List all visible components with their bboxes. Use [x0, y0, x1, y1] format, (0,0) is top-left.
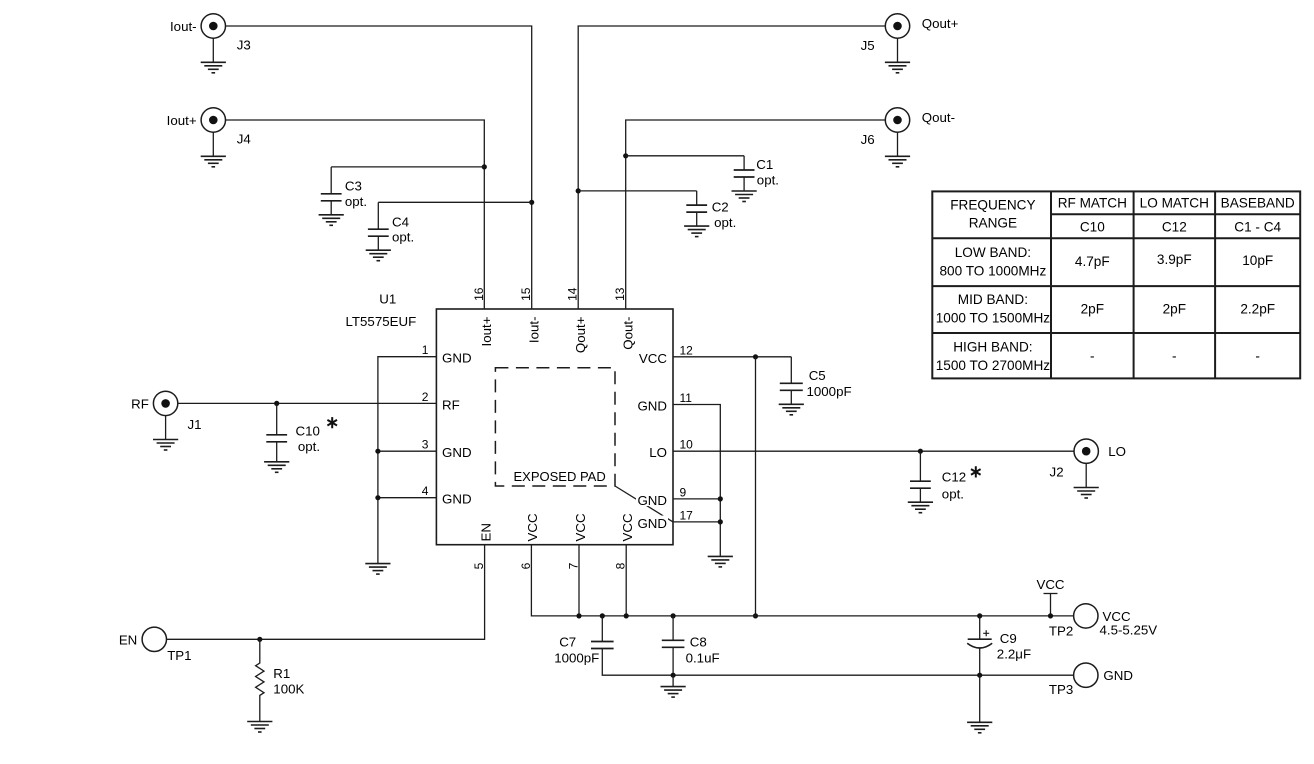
- svg-text:Qout+: Qout+: [922, 16, 959, 31]
- ground under R1: [247, 722, 272, 733]
- wire J1 to ground: [165, 416, 167, 440]
- svg-text:C3: C3: [345, 178, 362, 193]
- connector J1 (RF): [153, 391, 177, 415]
- wire pin 8 stub: [625, 545, 627, 616]
- capacitor C3: [321, 167, 342, 215]
- wire pin 17: [673, 521, 720, 523]
- frequency range table: [932, 191, 1300, 378]
- svg-text:11: 11: [680, 391, 693, 405]
- svg-text:LO MATCH: LO MATCH: [1140, 195, 1209, 210]
- ground under J4: [201, 156, 226, 167]
- svg-text:LO: LO: [649, 445, 667, 460]
- svg-text:0.1uF: 0.1uF: [686, 650, 720, 665]
- svg-text:10: 10: [680, 438, 694, 452]
- ground under C10: [264, 462, 289, 473]
- capacitor C1: [734, 156, 755, 191]
- wire pin 11 GND trunk: [673, 405, 720, 557]
- svg-text:C2: C2: [712, 200, 729, 215]
- connector J5 (Qout+): [885, 14, 909, 38]
- wire J3 to ground: [212, 38, 214, 62]
- junction node pin 8 / rail: [624, 613, 629, 618]
- svg-text:-: -: [1172, 349, 1177, 364]
- test point TP1 (EN): [142, 627, 166, 651]
- svg-text:Iout+: Iout+: [167, 113, 197, 128]
- svg-text:J3: J3: [237, 37, 251, 52]
- label C12 asterisk: [971, 466, 981, 477]
- svg-text:EN: EN: [119, 632, 137, 647]
- svg-text:VCC: VCC: [620, 513, 635, 541]
- wire to C3: [331, 166, 484, 168]
- ground under pin 11 trunk: [708, 556, 733, 567]
- svg-text:15: 15: [519, 287, 533, 301]
- svg-text:J1: J1: [188, 417, 202, 432]
- wire pin 7 stub: [578, 545, 580, 616]
- wire pin 1 GND trunk: [378, 357, 437, 564]
- wire TP1 to pin 5 (EN): [167, 545, 485, 640]
- junction node C8 / rail: [671, 613, 676, 618]
- ground under J2: [1074, 488, 1099, 499]
- svg-text:TP3: TP3: [1049, 682, 1073, 697]
- svg-text:RF MATCH: RF MATCH: [1058, 195, 1127, 210]
- svg-text:Iout-: Iout-: [526, 317, 541, 344]
- svg-text:4.5-5.25V: 4.5-5.25V: [1100, 623, 1158, 638]
- ground under J1: [153, 440, 178, 451]
- svg-text:10pF: 10pF: [1242, 253, 1273, 268]
- ground under C9: [967, 722, 992, 733]
- wire J6 to pin 13 (Qout-): [626, 120, 886, 309]
- svg-text:2: 2: [422, 390, 429, 404]
- wire pin 6 to VCC rail: [531, 545, 1073, 616]
- svg-text:VCC: VCC: [525, 513, 540, 541]
- svg-text:1000 TO 1500MHz: 1000 TO 1500MHz: [936, 311, 1051, 326]
- test point TP2 (VCC): [1074, 604, 1098, 628]
- junction node pin 9: [718, 496, 723, 501]
- svg-text:9: 9: [680, 485, 687, 499]
- ground under C4: [366, 250, 391, 261]
- wire J3 to pin 15 (Iout-): [226, 26, 532, 309]
- wire J1 to pin 2 (RF): [178, 402, 437, 404]
- svg-text:GND: GND: [442, 492, 472, 507]
- wire VCC junction down to rail: [755, 357, 757, 616]
- svg-text:VCC: VCC: [573, 513, 588, 541]
- capacitor C9 (polarized): [967, 616, 992, 675]
- ground under C8: [661, 687, 686, 698]
- svg-text:J2: J2: [1050, 465, 1064, 480]
- junction node RF / C10: [274, 401, 279, 406]
- junction node C7 / rail: [600, 613, 605, 618]
- capacitor C10: [266, 403, 287, 461]
- svg-text:-: -: [1090, 349, 1095, 364]
- ground under C1: [732, 191, 757, 202]
- wire pin 12 to C5: [673, 356, 791, 358]
- svg-text:RANGE: RANGE: [969, 216, 1017, 231]
- svg-text:R1: R1: [273, 666, 290, 681]
- capacitor C12: [910, 451, 931, 502]
- svg-text:opt.: opt.: [345, 194, 367, 209]
- junction node C9 / GND rail: [977, 673, 982, 678]
- wire to C4: [378, 201, 531, 203]
- capacitor C5: [780, 357, 803, 405]
- wire pin 9: [673, 498, 720, 500]
- svg-text:1: 1: [422, 343, 429, 357]
- power symbol VCC: [1044, 594, 1058, 616]
- svg-text:C12: C12: [942, 469, 966, 484]
- ground under C5: [779, 404, 804, 415]
- svg-text:GND: GND: [637, 493, 667, 508]
- svg-text:opt.: opt.: [392, 230, 414, 245]
- connector J3 (Iout-): [201, 14, 225, 38]
- ground under J6: [885, 156, 910, 167]
- capacitor C4: [368, 202, 389, 250]
- junction node pin 3: [375, 449, 380, 454]
- junction node pin 4: [375, 495, 380, 500]
- ground under C3: [319, 215, 344, 226]
- junction node LO / C12: [918, 449, 923, 454]
- svg-text:2.2μF: 2.2μF: [997, 646, 1031, 661]
- svg-text:VCC: VCC: [639, 351, 667, 366]
- svg-text:EN: EN: [478, 523, 493, 541]
- svg-text:opt.: opt.: [714, 215, 736, 230]
- svg-text:C1 - C4: C1 - C4: [1234, 219, 1281, 234]
- svg-text:RF: RF: [131, 396, 149, 411]
- svg-text:EXPOSED PAD: EXPOSED PAD: [514, 469, 606, 484]
- svg-text:13: 13: [613, 287, 627, 301]
- wire pin 10 LO to J2: [673, 450, 1074, 452]
- capacitor C8: [662, 616, 685, 675]
- svg-text:LT5575EUF: LT5575EUF: [346, 314, 417, 329]
- wire C7 to GND rail: [602, 663, 1073, 676]
- junction node VCC vertical / rail: [753, 613, 758, 618]
- svg-text:opt.: opt.: [942, 487, 964, 502]
- svg-text:3.9pF: 3.9pF: [1157, 252, 1192, 267]
- wire J6 to ground: [897, 132, 899, 156]
- svg-text:opt.: opt.: [757, 172, 779, 187]
- svg-text:GND: GND: [442, 445, 472, 460]
- svg-text:C9: C9: [1000, 631, 1017, 646]
- wire J4 to ground: [212, 132, 214, 156]
- svg-text:4.7pF: 4.7pF: [1075, 254, 1110, 269]
- junction node Iout+ / C3: [482, 164, 487, 169]
- ground under GND trunk: [365, 564, 390, 575]
- junction node Qout- / C1: [623, 153, 628, 158]
- svg-text:2pF: 2pF: [1081, 302, 1104, 317]
- svg-text:2pF: 2pF: [1163, 302, 1186, 317]
- svg-text:C5: C5: [809, 368, 826, 383]
- svg-text:TP1: TP1: [167, 648, 191, 663]
- svg-text:C7: C7: [559, 635, 576, 650]
- svg-text:MID BAND:: MID BAND:: [958, 292, 1028, 307]
- svg-text:FREQUENCY: FREQUENCY: [950, 197, 1035, 212]
- svg-text:BASEBAND: BASEBAND: [1221, 195, 1295, 210]
- svg-text:opt.: opt.: [298, 439, 320, 454]
- svg-text:800 TO 1000MHz: 800 TO 1000MHz: [939, 263, 1046, 278]
- wire J2 to ground: [1085, 463, 1087, 487]
- junction node VCC symbol / rail: [1048, 613, 1053, 618]
- exposed pad dashed outline: [495, 368, 615, 486]
- svg-text:-: -: [1255, 349, 1260, 364]
- svg-text:J4: J4: [237, 131, 251, 146]
- junction node pin 7 / rail: [576, 613, 581, 618]
- svg-text:U1: U1: [379, 292, 396, 307]
- junction node VCC / C5 branch: [753, 354, 758, 359]
- svg-text:14: 14: [566, 287, 580, 301]
- svg-text:2.2pF: 2.2pF: [1240, 302, 1275, 317]
- svg-text:1500 TO 2700MHz: 1500 TO 2700MHz: [936, 358, 1051, 373]
- junction node Iout- / C4: [529, 200, 534, 205]
- svg-text:GND: GND: [1103, 668, 1133, 683]
- connector J6 (Qout-): [885, 108, 909, 132]
- svg-text:1000pF: 1000pF: [807, 384, 852, 399]
- ground under J3: [201, 62, 226, 73]
- ground under C2: [684, 226, 709, 237]
- svg-text:TP2: TP2: [1049, 624, 1073, 639]
- wire C8 ground stub: [672, 675, 674, 686]
- junction node EN / R1: [257, 637, 262, 642]
- resistor R1: [256, 639, 264, 721]
- svg-text:17: 17: [680, 508, 694, 522]
- op-amp U1 LT5575EUF body: [436, 309, 673, 545]
- svg-text:1000pF: 1000pF: [554, 650, 599, 665]
- test point TP3 (GND): [1074, 663, 1098, 687]
- svg-text:LO: LO: [1108, 444, 1126, 459]
- svg-text:GND: GND: [637, 399, 667, 414]
- svg-text:3: 3: [422, 438, 429, 452]
- table text: [936, 195, 1295, 373]
- capacitor C7: [591, 616, 614, 663]
- svg-text:12: 12: [680, 343, 694, 357]
- ground under C12: [908, 502, 933, 513]
- svg-text:C10: C10: [296, 424, 320, 439]
- svg-text:100K: 100K: [273, 682, 304, 697]
- svg-text:16: 16: [472, 287, 486, 301]
- wire J5 to ground: [897, 38, 899, 62]
- ground under J5: [885, 62, 910, 73]
- junction node C9 / rail: [977, 613, 982, 618]
- svg-text:J5: J5: [861, 38, 875, 53]
- svg-text:VCC: VCC: [1036, 577, 1064, 592]
- svg-text:Qout+: Qout+: [573, 316, 588, 353]
- svg-text:C1: C1: [756, 157, 773, 172]
- label EXPOSED PAD: [511, 470, 611, 484]
- svg-text:J6: J6: [861, 132, 875, 147]
- svg-text:Qout-: Qout-: [922, 110, 955, 125]
- connector J2 (LO): [1074, 439, 1098, 463]
- svg-text:C10: C10: [1080, 219, 1105, 234]
- wire J5 to pin 14 (Qout+): [578, 26, 885, 309]
- svg-text:C8: C8: [690, 635, 707, 650]
- wire exposed pad to pin 17: [615, 486, 673, 522]
- svg-text:Iout-: Iout-: [170, 19, 197, 34]
- svg-text:LOW BAND:: LOW BAND:: [955, 245, 1031, 260]
- svg-text:GND: GND: [442, 351, 472, 366]
- svg-text:GND: GND: [637, 516, 667, 531]
- svg-text:C4: C4: [392, 214, 409, 229]
- svg-text:4: 4: [422, 484, 429, 498]
- svg-text:Qout-: Qout-: [620, 317, 635, 350]
- wire to C2: [578, 190, 697, 192]
- capacitor C2: [686, 191, 707, 226]
- label C9 plus sign: [983, 630, 989, 636]
- wire pin 3: [378, 450, 437, 452]
- svg-text:Iout+: Iout+: [479, 316, 494, 346]
- junction node C8 / GND rail: [671, 673, 676, 678]
- junction node Qout+ / C2: [576, 188, 581, 193]
- svg-text:C12: C12: [1162, 219, 1187, 234]
- svg-text:RF: RF: [442, 397, 460, 412]
- junction node pin 17: [718, 519, 723, 524]
- wire pin 4: [378, 497, 437, 499]
- wire J4 to pin 16 (Iout+): [226, 120, 485, 309]
- connector J4 (Iout+): [201, 108, 225, 132]
- wire to C1: [626, 155, 744, 157]
- svg-text:HIGH BAND:: HIGH BAND:: [953, 340, 1032, 355]
- wire C9 to ground: [979, 675, 981, 722]
- label C10 asterisk: [327, 417, 337, 428]
